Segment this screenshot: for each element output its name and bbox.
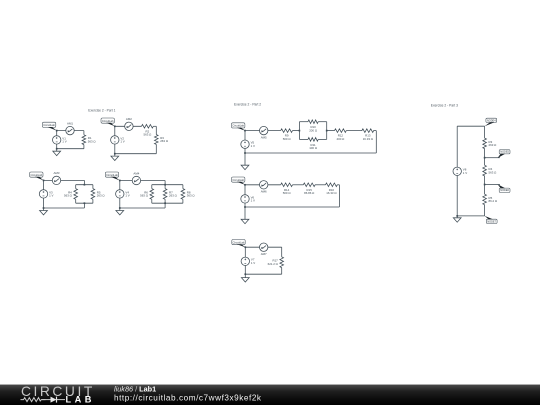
- ammeter AM3: [52, 171, 60, 184]
- svg-text:563 Ω: 563 Ω: [64, 194, 73, 198]
- node NODE6: [498, 184, 510, 192]
- wire P2C2 main a: [245, 184, 281, 186]
- resistor R13: [362, 129, 374, 141]
- svg-text:263 Ω: 263 Ω: [160, 139, 169, 143]
- wire P2C2 main d: [337, 184, 339, 186]
- junction P1C4 a: [119, 180, 121, 182]
- wire P2C1 main e: [373, 130, 376, 132]
- node NODE5: [498, 150, 510, 158]
- wire P2C3 bottom: [245, 273, 281, 275]
- resistor R17: [268, 257, 284, 268]
- svg-text:AM3: AM3: [54, 171, 60, 175]
- junction P2C1 a: [244, 130, 246, 132]
- svg-text:263 Ω: 263 Ω: [169, 194, 178, 198]
- svg-text:AM5: AM5: [261, 135, 267, 139]
- wire P1C4 R8 bottom lead: [182, 199, 184, 203]
- svg-text:263 Ω: 263 Ω: [97, 194, 106, 198]
- wire P2C2 left: [244, 185, 246, 220]
- resistor R5: [91, 189, 105, 200]
- node NODE4: [485, 118, 497, 126]
- svg-text:16.33 Ω: 16.33 Ω: [326, 191, 337, 195]
- wire P2C1 main d: [346, 130, 362, 132]
- resistor R8: [181, 189, 195, 200]
- wire P1C3 tap down: [83, 180, 85, 184]
- voltage source V3: [39, 190, 53, 198]
- wire P3 chain a: [484, 126, 486, 138]
- svg-text:CircuitLab: CircuitLab: [102, 119, 114, 123]
- junction P2C1 c: [299, 130, 301, 132]
- svg-text:200 Ω: 200 Ω: [309, 128, 318, 132]
- junction P1C4 c: [164, 184, 166, 186]
- wire P2C1 left: [244, 131, 246, 166]
- wire P3 ground stem: [456, 216, 458, 218]
- wire P1C3 bottom: [44, 207, 85, 209]
- wire P1C2 left: [114, 126, 116, 153]
- wire P1C3 R5 top lead: [92, 185, 94, 189]
- svg-text:1 V: 1 V: [463, 171, 467, 175]
- wire P1C3 top rail: [76, 184, 93, 186]
- junction P2C1 b: [244, 152, 246, 154]
- svg-text:liuk86 / Lab1: liuk86 / Lab1: [114, 384, 156, 393]
- wire P2C2 bottom: [245, 206, 339, 208]
- wire P1C3 R4 bottom lead: [75, 199, 77, 203]
- wire P1C4 bottom: [120, 207, 165, 209]
- wire P3 node5 stub: [485, 157, 500, 159]
- svg-text:563 Ω: 563 Ω: [144, 133, 153, 137]
- svg-text:621.2 Ω: 621.2 Ω: [268, 262, 279, 266]
- ground P1C2: [111, 156, 119, 160]
- svg-text:AM6: AM6: [261, 190, 267, 194]
- logo diode: [42, 397, 66, 403]
- wire P2C1 right: [375, 131, 377, 153]
- logo resistor zigzag: [21, 398, 46, 402]
- ammeter AM5: [260, 126, 268, 139]
- wire P2C1 bottom: [245, 152, 376, 154]
- wire P1C2 top: [115, 125, 142, 127]
- svg-text:CircuitLab: CircuitLab: [30, 173, 42, 177]
- ground P2C1: [241, 165, 249, 169]
- resistor R16: [326, 183, 338, 195]
- junction P1C4 b: [119, 207, 121, 209]
- resistor R5 part3: [483, 194, 498, 205]
- ammeter AM7: [260, 243, 268, 256]
- wire P1C2 right upper: [155, 126, 157, 134]
- wire P3 bottom: [457, 215, 484, 217]
- junction P3 bottom: [456, 215, 458, 217]
- voltage source V8: [453, 167, 467, 175]
- wire P2C3 right lower: [281, 268, 283, 275]
- CircuitLab tag P1C1: [42, 122, 56, 130]
- svg-text:NODE7: NODE7: [487, 220, 496, 223]
- wire P1C4 tap down: [164, 181, 166, 185]
- wire P1C2 top right: [153, 125, 156, 127]
- svg-text:563 Ω: 563 Ω: [88, 139, 97, 143]
- ammeter AM6: [260, 181, 268, 194]
- svg-text:1 V: 1 V: [251, 261, 255, 265]
- resistor R15: [303, 183, 315, 195]
- wire P1C4 R8 top lead: [182, 185, 184, 189]
- junction P1C3 d: [84, 202, 86, 204]
- wire P1C4 R7 bottom lead: [164, 199, 166, 203]
- wire P1C3 left: [43, 180, 45, 208]
- svg-text:263 Ω: 263 Ω: [489, 143, 498, 147]
- CircuitLab tag P1C2: [101, 118, 115, 126]
- svg-text:CircuitLab: CircuitLab: [232, 178, 244, 182]
- svg-text:AM1: AM1: [67, 121, 73, 125]
- wire P2C1 block bottom rail a: [299, 138, 308, 140]
- ammeter AM4: [132, 171, 140, 184]
- junction P1C3 b: [43, 207, 45, 209]
- ammeter AM1: [66, 121, 74, 134]
- svg-text:400 Ω: 400 Ω: [337, 137, 346, 141]
- wire P2C1 block top rail a: [299, 121, 308, 123]
- resistor R12: [335, 129, 347, 141]
- svg-text:AM2: AM2: [126, 117, 132, 121]
- svg-text:500 Ω: 500 Ω: [283, 137, 292, 141]
- svg-text:86.2 Ω: 86.2 Ω: [489, 199, 498, 203]
- ground P1C3: [40, 211, 48, 215]
- svg-text:563 Ω: 563 Ω: [140, 194, 149, 198]
- junction P1C2 a: [114, 125, 116, 127]
- node NODE7: [485, 216, 497, 224]
- svg-text:LAB: LAB: [66, 395, 95, 405]
- wire P1C2 ground stem: [114, 154, 116, 156]
- wire P1C4 ground stem: [119, 208, 121, 211]
- wire P1C1 right bottom lead: [83, 145, 85, 149]
- resistor R4: [64, 189, 77, 200]
- wire P2C3 left: [244, 247, 246, 277]
- svg-text:Exercise 2 - Part 2: Exercise 2 - Part 2: [234, 103, 261, 107]
- wire P1C3 top: [44, 179, 85, 181]
- wire P1C4 R7 top lead: [164, 185, 166, 189]
- wire P2C1 block left up: [298, 122, 300, 131]
- junction P2C3 a: [244, 246, 246, 248]
- resistor R10: [308, 120, 318, 132]
- voltage source V7: [241, 257, 255, 265]
- wire P3 node6 stub: [485, 184, 500, 186]
- voltage source V2: [111, 136, 125, 144]
- wire P3 top: [457, 125, 484, 127]
- junction P2C3 b: [244, 273, 246, 275]
- resistor R2: [142, 125, 154, 137]
- wire P1C3 ground stem: [43, 208, 45, 211]
- resistor R6: [140, 189, 153, 200]
- voltage source V5: [241, 140, 255, 148]
- resistor R4 part3: [483, 165, 497, 176]
- wire P1C4 left: [119, 181, 121, 209]
- svg-text:100 Ω: 100 Ω: [309, 146, 318, 150]
- wire P1C1 ground stem: [56, 149, 58, 152]
- ground P2C2: [241, 219, 249, 223]
- wire P2C1 main a: [245, 130, 281, 132]
- wire P2C1 block bottom rail b: [318, 138, 327, 140]
- svg-text:1 V: 1 V: [251, 199, 255, 203]
- ground P1C1: [53, 151, 61, 155]
- wire P1C4 tap bottom: [164, 203, 166, 208]
- wire P1C3 R4 top lead: [75, 185, 77, 189]
- wire P1C3 bottom rail: [76, 202, 93, 204]
- svg-text:CircuitLab: CircuitLab: [106, 173, 118, 177]
- resistor R7: [163, 189, 177, 200]
- junction P1C1 a: [56, 130, 58, 132]
- wire P3 chain c: [484, 176, 486, 194]
- svg-text:Exercise 2 - Part 1: Exercise 2 - Part 1: [88, 109, 115, 113]
- wire P2C1 main c: [327, 130, 335, 132]
- wire P2C2 main b: [293, 184, 304, 186]
- junction P1C2 b: [114, 153, 116, 155]
- wire P1C4 top rail: [152, 184, 183, 186]
- wire P2C2 right: [338, 185, 340, 207]
- wire P1C3 tap bottom: [83, 203, 85, 208]
- junction P1C3 a: [43, 180, 45, 182]
- junction P1C4 d: [164, 202, 166, 204]
- wire P1C1 bottom: [57, 148, 84, 150]
- resistor R3: [155, 135, 169, 145]
- svg-text:CircuitLab: CircuitLab: [43, 123, 55, 127]
- wire P3 chain b: [484, 149, 486, 166]
- wire P2C2 main c: [315, 184, 326, 186]
- voltage source V1: [53, 136, 67, 144]
- ground P3: [453, 218, 461, 222]
- wire P2C1 main b: [293, 130, 300, 132]
- wire P1C4 top: [120, 180, 165, 182]
- wire P1C2 right lower: [155, 144, 157, 153]
- CircuitLab tag P2C3: [232, 240, 246, 248]
- svg-text:AM4: AM4: [133, 171, 139, 175]
- voltage source V6: [241, 195, 255, 203]
- wire P1C4 bottom rail: [152, 202, 183, 204]
- svg-text:1 V: 1 V: [125, 194, 129, 198]
- wire P2C3 main: [245, 246, 281, 248]
- wire P2C1 block left down: [298, 131, 300, 140]
- wire P1C1 top: [57, 130, 84, 132]
- junction P2C2 b: [244, 206, 246, 208]
- wire P1C4 R6 bottom lead: [151, 199, 153, 203]
- resistor R3 part3: [483, 138, 497, 149]
- svg-text:1 V: 1 V: [120, 140, 124, 144]
- resistor R14: [281, 183, 293, 195]
- junction P3 node6: [484, 184, 486, 186]
- svg-text:86.86 Ω: 86.86 Ω: [304, 191, 315, 195]
- resistor R11: [308, 138, 318, 151]
- wire P1C3 R5 bottom lead: [92, 199, 94, 203]
- footer bar: [0, 384, 540, 405]
- junction P1C3 c: [84, 184, 86, 186]
- wire P1C2 bottom: [115, 153, 157, 155]
- svg-text:1 V: 1 V: [251, 144, 255, 148]
- junction P1C1 b: [56, 148, 58, 150]
- wire P2C1 block top rail b: [318, 121, 327, 123]
- wire P3 chain d: [484, 205, 486, 216]
- svg-text:NODE4: NODE4: [487, 119, 496, 122]
- svg-text:CircuitLab: CircuitLab: [233, 240, 245, 244]
- svg-text:1 V: 1 V: [62, 140, 66, 144]
- junction P2C1 d: [326, 130, 328, 132]
- svg-text:563 Ω: 563 Ω: [489, 170, 498, 174]
- ground P2C3: [241, 278, 249, 282]
- svg-text:http://circuitlab.com/c7wwf3x9: http://circuitlab.com/c7wwf3x9kef2k: [114, 394, 262, 403]
- resistor R1: [82, 135, 96, 145]
- ammeter AM2: [125, 117, 133, 130]
- resistor R9: [281, 129, 293, 141]
- ground P1C4: [116, 211, 124, 215]
- CircuitLab tag P1C4: [105, 172, 120, 181]
- wire P2C1 block right up: [326, 122, 328, 131]
- svg-text:363 Ω: 363 Ω: [187, 194, 196, 198]
- svg-text:AM7: AM7: [261, 252, 267, 256]
- CircuitLab tag P2C2: [232, 177, 246, 185]
- wire P1C1 left: [56, 131, 58, 149]
- svg-text:16.33 Ω: 16.33 Ω: [363, 137, 374, 141]
- svg-text:1 V: 1 V: [49, 194, 53, 198]
- wire P2C1 block right down: [326, 131, 328, 140]
- svg-text:NODE6: NODE6: [500, 189, 509, 192]
- junction P3 node5: [484, 157, 486, 159]
- svg-text:500 Ω: 500 Ω: [283, 191, 292, 195]
- voltage source V4: [116, 190, 130, 198]
- wire P2C3 right upper: [281, 247, 283, 257]
- junction P2C2 a: [244, 184, 246, 186]
- svg-text:Exercise 2 - Part 3: Exercise 2 - Part 3: [431, 103, 458, 107]
- wire P1C1 right top lead: [83, 131, 85, 135]
- svg-text:NODE5: NODE5: [500, 151, 509, 154]
- wire P1C4 R6 top lead: [151, 185, 153, 189]
- svg-text:CircuitLab: CircuitLab: [232, 124, 244, 128]
- CircuitLab tag P1C3: [30, 172, 44, 180]
- CircuitLab tag P2C1: [232, 123, 246, 131]
- wire P3 left: [456, 126, 458, 216]
